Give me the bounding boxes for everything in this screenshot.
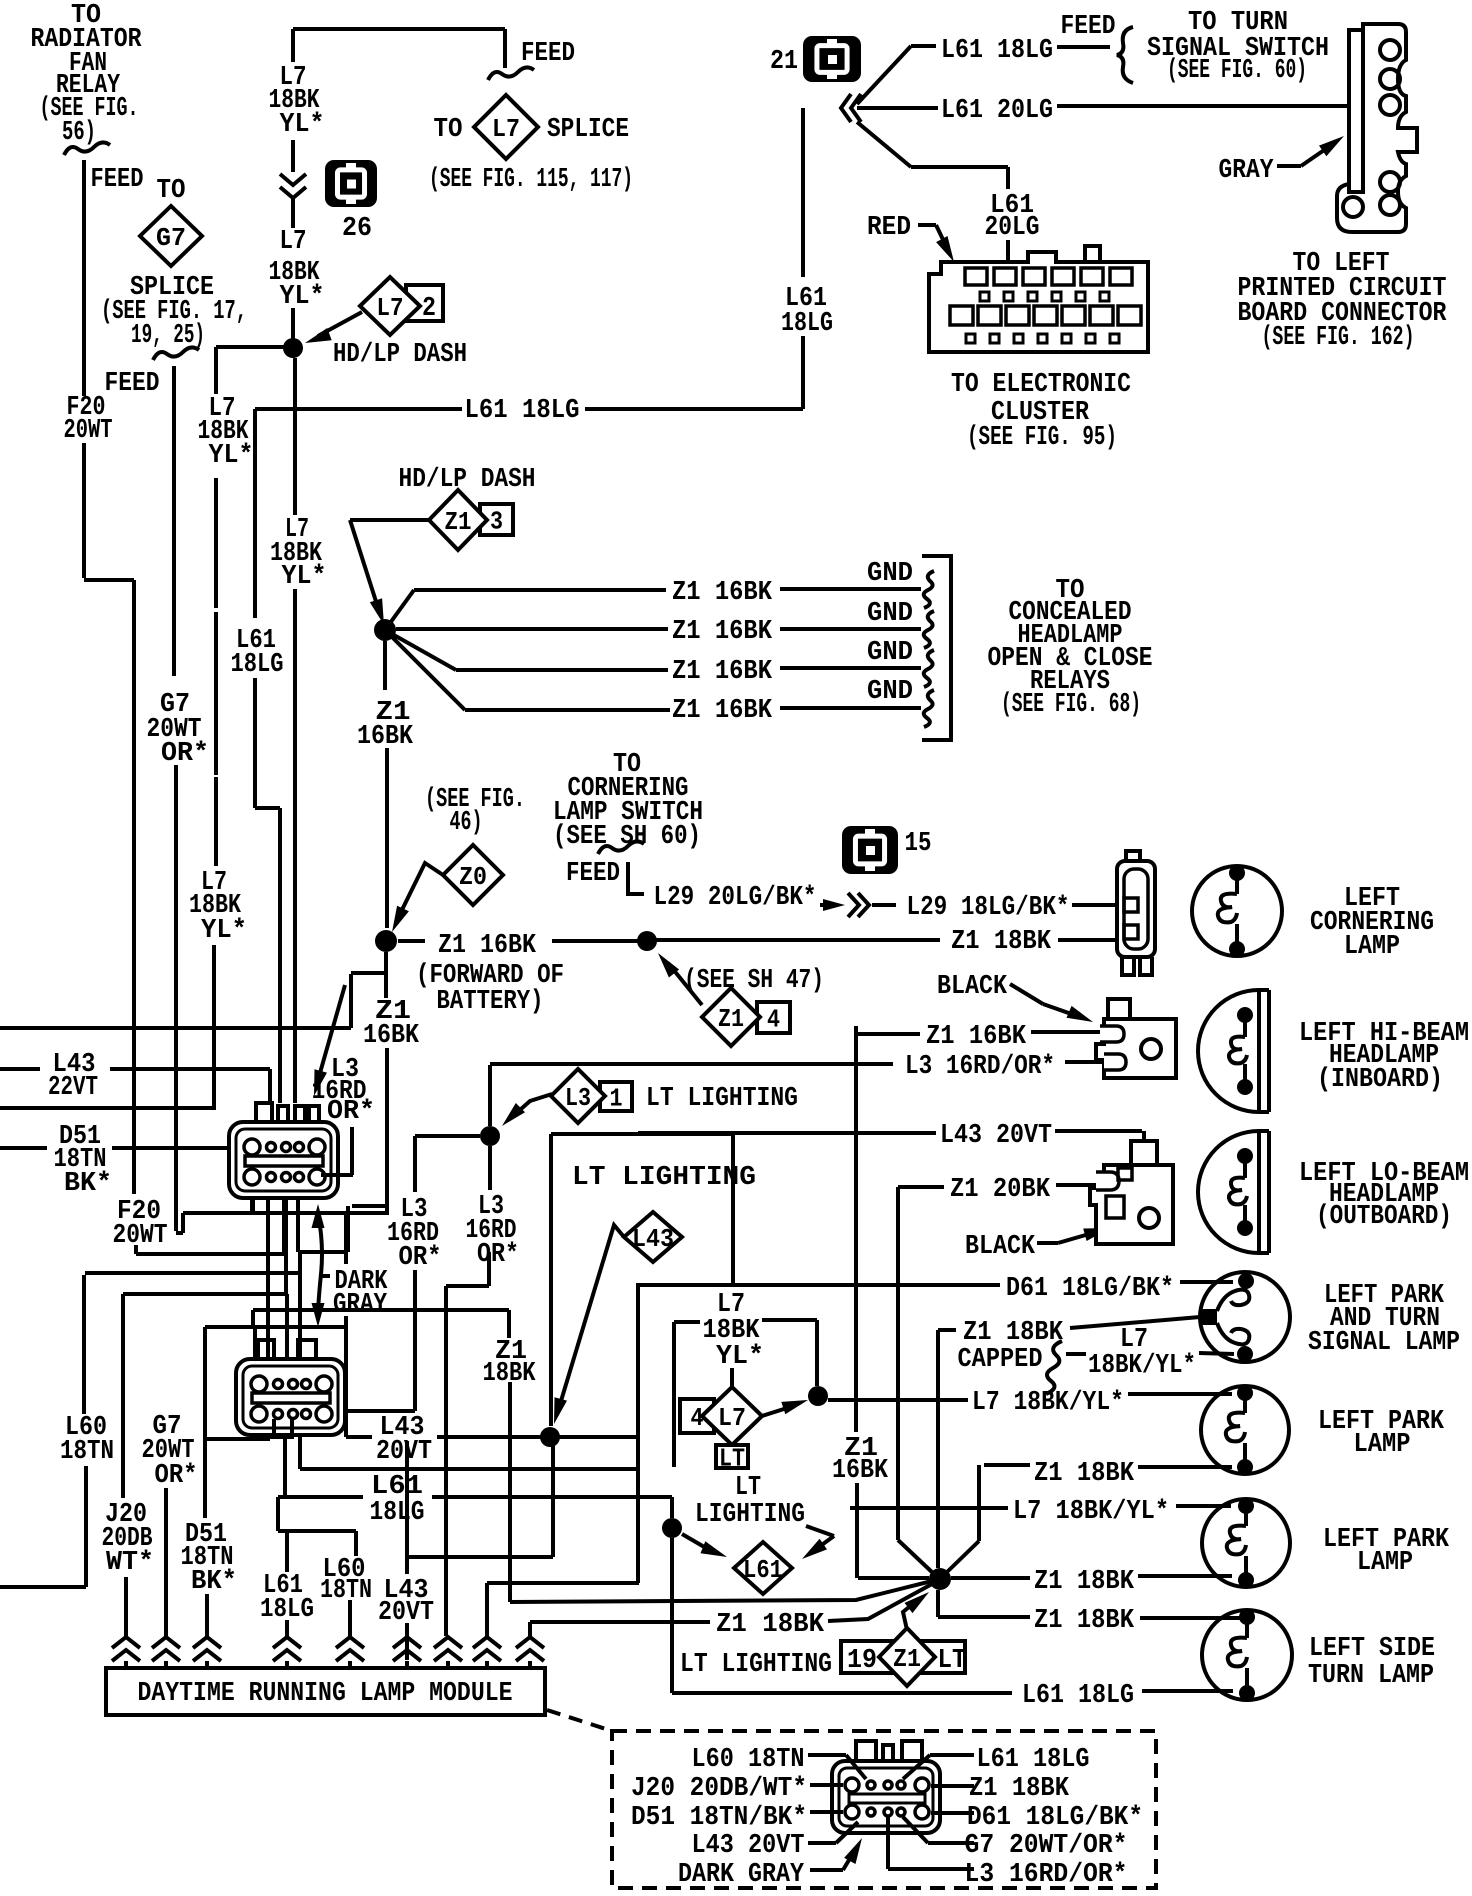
label LEFT SIDE TURN LAMP <box>1308 1634 1435 1691</box>
svg-text:Z1 16BK: Z1 16BK <box>672 617 773 647</box>
junction dot 3 <box>637 931 657 951</box>
label L7 18BK YL* (second) <box>269 227 325 312</box>
svg-text:Z1 18BK: Z1 18BK <box>951 927 1052 957</box>
label L43 20VT (row) <box>376 1413 432 1467</box>
svg-text:J20 20DB/WT*: J20 20DB/WT* <box>631 1774 807 1804</box>
svg-text:GND: GND <box>867 638 913 668</box>
wire F20 elbow to connector pin <box>136 1198 284 1254</box>
svg-text:16BK: 16BK <box>832 1456 889 1486</box>
ground wire 2 (Z1 16BK) <box>396 627 921 631</box>
connector icon 15 <box>842 826 898 874</box>
arrow from Z1-4 into junction 3 <box>658 953 702 1005</box>
label LEFT PARK AND TURN SIGNAL LAMP <box>1308 1281 1460 1358</box>
connector C2 terminals (staples) <box>258 1340 316 1360</box>
svg-text:LIGHTING: LIGHTING <box>695 1500 805 1530</box>
svg-text:CAPPED: CAPPED <box>958 1345 1043 1375</box>
wire from junction 2 west (forward of battery) <box>346 952 387 1437</box>
junction dot L7 (park circuit) <box>808 1386 828 1406</box>
svg-text:(SEE FIG. 95): (SEE FIG. 95) <box>967 423 1117 453</box>
wire L61 18LG from connector 21 down and west <box>255 108 803 1103</box>
wire Z1 16BK (x856) into J6 <box>858 1576 929 1580</box>
label Z1 18BK (cornering) <box>944 924 1058 950</box>
label L7 18BK/YL* (capped) <box>1088 1325 1196 1381</box>
svg-text:(SEE FIG. 68): (SEE FIG. 68) <box>1001 690 1141 720</box>
wire jog to L60/L61 pin columns <box>278 1497 356 1637</box>
connector symbol (arrow + chevrons) L29 <box>820 893 896 917</box>
wire L61 20LG to PCB connector <box>857 106 1380 108</box>
svg-text:L3 16RD/OR*: L3 16RD/OR* <box>965 1860 1128 1890</box>
arrow from 4-L7 diamond into junction L7 <box>762 1400 808 1416</box>
ground wire 4 (Z1 16BK) <box>385 630 921 710</box>
wire capped stub to park/turn lamp <box>1199 1353 1234 1354</box>
wire L43 20VT row to lo-beam <box>638 1131 1144 1165</box>
lamp: left lo-beam headlamp (half) <box>1198 1131 1259 1253</box>
splice symbol Z0 <box>443 845 503 905</box>
label LEFT LO-BEAM HEADLAMP (OUTBOARD) <box>1299 1159 1469 1232</box>
svg-text:Z1: Z1 <box>893 1644 921 1674</box>
wire D51 18TN BK* row <box>0 1146 246 1150</box>
label LT LIGHTING (lower) with arrow to L61 diamond <box>695 1473 834 1559</box>
svg-text:RED: RED <box>867 213 911 243</box>
svg-text:Z1 18BK: Z1 18BK <box>716 1610 825 1640</box>
circuit ref Z1-4 diamond with box <box>702 988 790 1046</box>
circuit ref L43 diamond with long arrow <box>554 1212 682 1424</box>
svg-text:OR*: OR* <box>161 739 209 769</box>
junction dot J6 (Z1 ground distribution) <box>929 1568 951 1590</box>
svg-text:18LG: 18LG <box>260 1595 314 1625</box>
wire Z1 20BK row to lo-beam <box>898 1185 1100 1540</box>
dashed detail box <box>612 1731 1156 1888</box>
svg-text:18TN: 18TN <box>60 1437 114 1467</box>
svg-text:16BK: 16BK <box>363 1021 420 1051</box>
connector C3 (DRL module connector) in detail box <box>832 1741 940 1833</box>
wire G7 20WT/OR* feed <box>174 366 389 1233</box>
wire L3 16RD/OR* from junction down-left (label col) <box>336 1136 480 1411</box>
svg-text:L61 20LG: L61 20LG <box>941 96 1053 126</box>
connector: left hi-beam headlamp <box>1096 999 1176 1078</box>
svg-text:L43 20VT: L43 20VT <box>940 1121 1052 1151</box>
note: TO RADIATOR FAN RELAY (SEE FIG. 56) <box>31 1 143 148</box>
svg-text:Z1 16BK: Z1 16BK <box>438 931 537 961</box>
svg-text:(SEE FIG. 60): (SEE FIG. 60) <box>1167 56 1307 86</box>
svg-text:26: 26 <box>342 214 372 244</box>
svg-text:Z1 16BK: Z1 16BK <box>672 578 773 608</box>
label D51 18TN BK* <box>54 1122 113 1199</box>
svg-text:(SEE FIG. 115, 117): (SEE FIG. 115, 117) <box>429 165 633 195</box>
feed break (cornering) <box>598 841 644 854</box>
junction dot (ground distribution) <box>374 619 396 641</box>
arrow from 19-Z1-LT diamond into J6 <box>903 1592 929 1630</box>
wire G7 label col to chevron 2 <box>164 1488 168 1637</box>
svg-text:Z1: Z1 <box>718 1004 744 1034</box>
svg-text:GND: GND <box>867 559 913 589</box>
svg-text:L7: L7 <box>280 227 307 257</box>
lamp: left park lamp 1 <box>1201 1386 1289 1474</box>
svg-text:LAMP: LAMP <box>1344 932 1400 962</box>
svg-text:(INBOARD): (INBOARD) <box>1317 1065 1443 1095</box>
label L60 18TN (pin col 5) <box>320 1555 372 1606</box>
svg-text:LEFT SIDE: LEFT SIDE <box>1309 1634 1435 1664</box>
svg-text:15: 15 <box>905 829 932 859</box>
label J20 20DB WT* <box>102 1500 155 1578</box>
svg-text:TO ELECTRONIC: TO ELECTRONIC <box>951 370 1131 400</box>
svg-text:TO: TO <box>434 115 463 145</box>
svg-text:Z1 18BK: Z1 18BK <box>1034 1459 1135 1489</box>
label L7 18BK YL* (diamond col) <box>703 1290 765 1372</box>
label L61 18LG (mid col) <box>231 626 284 680</box>
svg-text:L29 20LG/BK*: L29 20LG/BK* <box>654 883 817 913</box>
circuit ref 19-Z1-LT boxed diamond <box>841 1628 967 1686</box>
wire Z1 18BK to park lamp1 bottom <box>1138 1465 1232 1469</box>
wire pin8 elbow (x487 to x639) <box>487 1583 639 1637</box>
svg-text:D51 18TN/BK*: D51 18TN/BK* <box>631 1803 807 1833</box>
note TO LEFT PRINTED CIRCUIT BOARD CONNECTOR (SEE FIG. 162) <box>1238 249 1448 353</box>
wire L7 18BK/YL* from feed to HD/LP dash junction <box>293 29 505 340</box>
svg-text:LT LIGHTING: LT LIGHTING <box>680 1650 832 1680</box>
wire L61 20LG to electronic cluster <box>857 122 1008 262</box>
note TO TURN SIGNAL SWITCH (SEE FIG. 60) <box>1147 8 1329 86</box>
wire L7 down to gray connector staple <box>293 358 297 515</box>
label LEFT PARK LAMP 1 <box>1318 1407 1445 1460</box>
wire Z1 18BK row 4 (below J6) to side turn lamp <box>938 1590 1240 1618</box>
label LEFT CORNERING LAMP <box>1310 884 1434 962</box>
label L3 16RD/OR* (detail) with wire <box>888 1817 1128 1890</box>
svg-text:LT LIGHTING: LT LIGHTING <box>572 1163 756 1193</box>
svg-text:18LG: 18LG <box>231 650 284 680</box>
svg-text:WT*: WT* <box>106 1548 154 1578</box>
svg-text:OR*: OR* <box>477 1240 519 1270</box>
wire into Z1-3 and down to ground junction <box>350 520 429 625</box>
svg-text:L61 18LG: L61 18LG <box>941 36 1053 66</box>
wire L60 18TN label col to left edge <box>0 1275 86 1587</box>
splice symbol G7 <box>140 206 202 266</box>
label G7 20WT OR* (mid) <box>147 690 210 769</box>
label D61 18LG/BK* (detail) with wire <box>931 1803 1143 1833</box>
junction dot HD/LP dash <box>283 338 303 358</box>
svg-text:Z1 18BK: Z1 18BK <box>1034 1567 1135 1597</box>
connector: left lo-beam headlamp <box>1090 1141 1173 1244</box>
svg-text:18LG: 18LG <box>781 309 833 339</box>
svg-text:DARK GRAY: DARK GRAY <box>678 1860 805 1890</box>
svg-text:DAYTIME RUNNING LAMP MODULE: DAYTIME RUNNING LAMP MODULE <box>138 1679 513 1709</box>
svg-text:2: 2 <box>422 294 436 324</box>
note (SEE FIG. 46) <box>425 785 525 838</box>
wire Z1 18BK to cornering lamp <box>647 938 940 942</box>
svg-text:20VT: 20VT <box>378 1598 434 1628</box>
circuit ref 4-L7 diamond with boxes <box>680 1387 762 1474</box>
wires from C1 bottom pins down <box>252 1198 389 1358</box>
svg-text:D61 18LG/BK*: D61 18LG/BK* <box>967 1803 1143 1833</box>
label L3 16RD OR* (left col) <box>387 1195 442 1273</box>
svg-text:L7: L7 <box>377 293 404 323</box>
svg-text:LT LIGHTING: LT LIGHTING <box>646 1084 798 1114</box>
svg-text:YL*: YL* <box>209 441 254 471</box>
arrow from L3-1 diamond into junction <box>502 1094 552 1126</box>
wire L7 18BK/YL* row1 to park lamp 1 <box>828 1394 1232 1400</box>
svg-text:Z1 16BK: Z1 16BK <box>672 657 773 687</box>
box DAYTIME RUNNING LAMP MODULE <box>106 1668 545 1715</box>
svg-text:FEED: FEED <box>105 369 160 399</box>
svg-text:3: 3 <box>490 507 503 537</box>
connector: electronic cluster <box>929 246 1148 352</box>
svg-text:HD/LP DASH: HD/LP DASH <box>333 340 467 370</box>
svg-text:L61 18LG: L61 18LG <box>1022 1681 1134 1711</box>
wire Z1 20BK (x898) diagonal into J6 <box>898 1540 934 1574</box>
connector: left printed circuit board connector <box>1337 24 1417 232</box>
label Z1 18BK (detail) with wire <box>931 1774 1070 1804</box>
svg-text:YL*: YL* <box>280 282 325 312</box>
svg-text:BLACK: BLACK <box>965 1232 1036 1262</box>
svg-text:Z1 18BK: Z1 18BK <box>963 1318 1064 1348</box>
label Z1 16BK (vertical) <box>357 698 414 752</box>
svg-text:L3 16RD/OR*: L3 16RD/OR* <box>905 1052 1055 1082</box>
svg-text:(OUTBOARD): (OUTBOARD) <box>1316 1202 1452 1232</box>
junction dot 2 (Z1 16BK) <box>375 930 397 952</box>
wire Z1 16BK row to hi-beam <box>856 1026 1100 1578</box>
connector C2 dark gray 10-way <box>236 1359 345 1435</box>
label D51 18TN BK* (col) <box>181 1520 238 1597</box>
svg-text:OR*: OR* <box>327 1097 375 1127</box>
ground wire 1 (Z1 16BK) <box>385 589 921 630</box>
wire Z1 18BK row (left) diagonal into J6 <box>828 1584 932 1621</box>
label Z1 16BK (col at 856) <box>832 1434 889 1486</box>
wire Z1 16BK row to junction 3 <box>398 939 425 943</box>
svg-text:L7: L7 <box>718 1403 746 1433</box>
wire L43 20VT row to DRL pin6 <box>346 1437 638 1660</box>
label LEFT PARK LAMP 2 <box>1323 1525 1450 1578</box>
wire Z1 18BK row (J6 east) to park lamp 2 <box>951 1576 1232 1578</box>
ground bracket to concealed headlamp relays <box>922 556 951 740</box>
wire from junction west then down to DRL area (L7 18BK YL*) <box>0 347 293 1108</box>
svg-text:L43 20VT: L43 20VT <box>692 1831 805 1861</box>
svg-text:OR*: OR* <box>155 1461 198 1491</box>
svg-text:L43: L43 <box>632 1224 674 1254</box>
lamp: left cornering lamp <box>1192 866 1282 956</box>
label L61 20LG (vertical) <box>985 191 1040 243</box>
wire Z1 16BK junction to junction 2 <box>385 641 387 928</box>
feed break symbol 2 <box>153 347 199 360</box>
svg-text:Z1 18BK: Z1 18BK <box>969 1774 1070 1804</box>
label Z1 16BK (below junction2) <box>363 997 420 1051</box>
svg-text:L60 18TN: L60 18TN <box>692 1745 805 1775</box>
wire D51 to DRL chevron 3 <box>205 1594 209 1637</box>
dashed leader from DRL module to detail box <box>547 1710 612 1731</box>
label LEFT HI-BEAM HEADLAMP (INBOARD) <box>1299 1019 1469 1095</box>
svg-text:YL*: YL* <box>716 1342 764 1372</box>
svg-text:(SEE SH 47): (SEE SH 47) <box>684 966 824 996</box>
svg-text:LT: LT <box>938 1646 967 1676</box>
label D51 18TN/BK* (detail) with wire <box>631 1803 843 1833</box>
svg-text:G7 20WT/OR*: G7 20WT/OR* <box>965 1831 1128 1861</box>
svg-text:SIGNAL LAMP: SIGNAL LAMP <box>1308 1328 1460 1358</box>
wire L7 18BK/YL* to 4-L7 diamond <box>551 1134 733 1426</box>
label L7 18BK YL* (left col) <box>198 394 254 471</box>
svg-text:20WT: 20WT <box>64 416 113 446</box>
circuit ref Z1-3 diamond with box <box>429 490 513 550</box>
splice symbol L61 <box>734 1542 792 1594</box>
wire L61 18LG to turn signal switch <box>857 46 1110 104</box>
svg-text:YL*: YL* <box>282 562 327 592</box>
svg-text:HD/LP DASH: HD/LP DASH <box>399 465 536 495</box>
svg-text:L7: L7 <box>492 114 520 144</box>
label G7 20WT/OR* (detail) with wire <box>903 1817 1128 1861</box>
feed for cornering lamp switch: note TO CORNERING LAMP SWITCH (SEE SH 60) <box>553 750 703 852</box>
label Z1 18BK (col) <box>483 1337 537 1389</box>
feed break symbol <box>64 142 110 155</box>
wire D51 from connector2 top to label col <box>205 1327 344 1518</box>
junction dot L3 <box>480 1126 500 1146</box>
label L61 18LG (detail) with wire <box>903 1745 1090 1779</box>
wire D61 18LG/BK* row to park/turn lamp <box>300 1282 1233 1583</box>
wire L61 18LG bottom row to side turn lamp <box>0 0 1 1</box>
label RED with arrow to cluster connector <box>867 213 954 262</box>
label L43 20VT (detail) with wire <box>692 1822 859 1861</box>
svg-text:L61 18LG: L61 18LG <box>977 1745 1090 1775</box>
svg-text:YL*: YL* <box>280 110 325 140</box>
label F20 20WT (upper) <box>64 393 113 446</box>
lamp: left park lamp 2 <box>1202 1499 1290 1587</box>
connector C1 terminals (staples) <box>256 1103 319 1124</box>
svg-text:YL*: YL* <box>201 916 247 946</box>
arrow from Z0 into junction 2 <box>392 863 443 932</box>
junction dot L43 <box>540 1427 560 1447</box>
wire L60 from left col to connector 2 <box>85 1273 300 1371</box>
label L60 18TN (detail) with wire <box>692 1745 867 1779</box>
ground wire 3 (Z1 16BK) <box>385 630 921 670</box>
circuit ref L3-1 diamond with box <box>551 1069 632 1123</box>
wire-break chevrons (21) <box>841 94 861 122</box>
svg-text:22VT: 22VT <box>48 1073 98 1103</box>
note SPLICE (SEE FIG. 17, 19, 25) <box>101 273 247 351</box>
label F20 20WT (lower) <box>113 1197 168 1251</box>
label L43 22VT <box>48 1050 98 1103</box>
wire L29 feed elbow <box>628 862 644 894</box>
svg-text:18BK/YL*: 18BK/YL* <box>1088 1351 1196 1381</box>
label L60 18TN (left col) <box>60 1413 114 1467</box>
wire F20 20WT from radiator fan relay <box>84 160 134 1194</box>
svg-text:(SEE FIG. 162): (SEE FIG. 162) <box>1262 323 1415 353</box>
arrow from J4 to L61 diamond <box>682 1534 727 1557</box>
lamp: left side turn lamp <box>1202 1610 1292 1700</box>
svg-text:4: 4 <box>767 1005 780 1035</box>
lamp: left hi-beam headlamp (half) <box>1198 990 1259 1112</box>
arrow L3 16RD OR* into gray connector <box>314 985 345 1096</box>
wire continues to junction 3 <box>552 939 647 943</box>
svg-text:FEED: FEED <box>566 859 620 889</box>
svg-text:21: 21 <box>770 47 798 77</box>
svg-text:20VT: 20VT <box>376 1437 432 1467</box>
wire L61 from DRL pin4 to J4 <box>278 1404 672 1518</box>
wire into cornering lamp socket <box>1058 938 1118 942</box>
svg-text:Z1 16BK: Z1 16BK <box>926 1022 1027 1052</box>
connector C1 gray 10-way <box>229 1122 338 1198</box>
svg-text:FEED: FEED <box>521 39 575 69</box>
wire capped L7 elbow into junction <box>674 1320 817 1467</box>
wire pin9 elbow (x530) Z1 18BK <box>530 1622 710 1637</box>
circuit ref L7-2 diamond with box <box>360 277 443 335</box>
arrow from L7-2 into HD/LP dash junction <box>305 312 362 343</box>
label GRAY with arrow to PCB connector <box>1219 136 1345 186</box>
wire L29 into cornering lamp socket <box>1072 903 1118 907</box>
svg-text:Z1: Z1 <box>445 507 472 537</box>
connector icon 21 <box>803 36 861 82</box>
connector: left cornering lamp socket <box>1117 851 1155 975</box>
svg-text:LAMP: LAMP <box>1354 1430 1411 1460</box>
svg-text:Z1 16BK: Z1 16BK <box>672 696 773 726</box>
svg-text:L61 18LG: L61 18LG <box>465 396 580 426</box>
label J20 20DB/WT* (detail) with wire <box>631 1774 843 1804</box>
svg-text:OR*: OR* <box>399 1243 442 1273</box>
label BLACK 2 with arrow to lo-beam connector <box>965 1228 1110 1262</box>
wire L3 south from junction (center col) <box>446 1146 490 1636</box>
svg-text:19: 19 <box>847 1646 877 1676</box>
label DARK GRAY (detail) with arrow <box>678 1838 862 1890</box>
svg-text:L7 18BK/YL*: L7 18BK/YL* <box>1013 1497 1169 1527</box>
label L43 20VT (pin col) <box>378 1576 434 1628</box>
label L61 18LG (right col) <box>781 284 833 339</box>
svg-text:L7 18BK/YL*: L7 18BK/YL* <box>972 1388 1124 1418</box>
svg-text:BK*: BK* <box>64 1169 112 1199</box>
svg-text:FEED: FEED <box>91 165 144 195</box>
wire stub row below connector 2 <box>207 1404 270 1439</box>
svg-text:Z1 20BK: Z1 20BK <box>950 1175 1051 1205</box>
label CAPPED with squiggle <box>958 1341 1087 1394</box>
note (FORWARD OF BATTERY) <box>416 961 564 1017</box>
wire Z1 16BK row into J6 (left horizontal) <box>510 1581 932 1602</box>
svg-text:TO: TO <box>157 176 186 206</box>
svg-text:18BK: 18BK <box>483 1359 537 1389</box>
svg-text:20LG: 20LG <box>985 213 1040 243</box>
wire-break chevrons on L7 wire <box>280 174 306 198</box>
svg-text:1: 1 <box>610 1084 623 1114</box>
svg-text:GND: GND <box>867 599 913 629</box>
label L7 18BK YL* (below junction) <box>270 515 327 592</box>
staple below connector 2 <box>274 1419 292 1437</box>
splice symbol L7 <box>474 95 538 159</box>
svg-text:BK*: BK* <box>191 1567 237 1597</box>
label L7 18BK YL* (top) <box>269 63 325 140</box>
svg-text:FEED: FEED <box>1061 12 1116 42</box>
svg-text:Z1 18BK: Z1 18BK <box>1034 1606 1135 1636</box>
svg-text:G7: G7 <box>156 223 186 253</box>
wire Z1 18BK row1 corner into J6 <box>946 1465 1030 1573</box>
label L61 18LG (pin col 4) <box>260 1571 314 1625</box>
svg-text:20WT: 20WT <box>113 1221 168 1251</box>
svg-text:LT: LT <box>735 1473 761 1503</box>
wire (row) into junction2 path from left edge <box>0 973 386 1028</box>
feed break symbol 3 <box>488 67 534 80</box>
callout DARK GRAY with double arrow between connectors <box>312 1204 389 1327</box>
note TO ELECTRONIC CLUSTER (SEE FIG. 95) <box>951 370 1131 453</box>
wire Z1 18BK from DRL pin9 to park junction (label col) <box>253 1310 510 1602</box>
svg-text:18LG: 18LG <box>370 1498 425 1528</box>
svg-text:TURN LAMP: TURN LAMP <box>1308 1661 1434 1691</box>
svg-text:GRAY: GRAY <box>1219 156 1275 186</box>
wire J20 to DRL chevron 1 <box>124 1577 128 1637</box>
wire J20 from left col to connector 2 <box>123 1294 287 1498</box>
svg-text:GND: GND <box>867 677 913 707</box>
svg-text:GRAY: GRAY <box>333 1290 388 1320</box>
svg-text:L3: L3 <box>565 1083 591 1113</box>
wire L7 18BK/YL* row 2 to park lamp 2 <box>850 1506 1231 1508</box>
label L3 16RD OR* (center col) <box>466 1192 520 1270</box>
wire L3 row to hi-beam connector <box>1065 1060 1104 1064</box>
svg-text:L29 18LG/BK*: L29 18LG/BK* <box>907 893 1070 923</box>
svg-text:D61 18LG/BK*: D61 18LG/BK* <box>1006 1274 1174 1304</box>
svg-text:56): 56) <box>62 118 96 148</box>
svg-text:BATTERY): BATTERY) <box>437 987 544 1017</box>
note TO CONCEALED HEADLAMP OPEN & CLOSE RELAYS (SEE FIG. 68) <box>988 576 1153 720</box>
